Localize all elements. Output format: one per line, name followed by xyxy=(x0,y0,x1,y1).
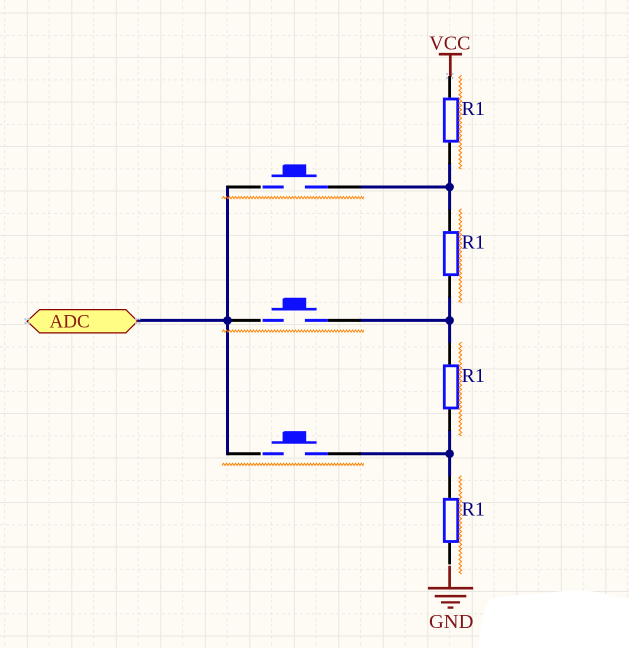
wire node A to R1(second) xyxy=(448,297,451,344)
junction node A (right, row1) xyxy=(445,183,454,192)
svg-text:VCC: VCC xyxy=(429,33,470,55)
wire switch1 to node A xyxy=(359,186,450,189)
resistor R1 (bottom) xyxy=(444,476,485,564)
wire R1(second) to node B / node B to R1(third) xyxy=(448,430,451,477)
wire R1(top) to node A xyxy=(448,163,451,210)
error marker zigzag under switch (bottom) xyxy=(222,463,364,465)
pushbutton switch S (bottom) xyxy=(227,431,361,454)
svg-text:GND: GND xyxy=(429,611,473,633)
wire left bus vertical xyxy=(226,186,229,456)
error marker zigzag at R1 (top) xyxy=(459,75,462,169)
wire switch3 to node C xyxy=(359,452,450,455)
svg-text:R1: R1 xyxy=(462,232,485,254)
pushbutton switch S (middle) xyxy=(227,298,361,321)
junction node C (right, row3) xyxy=(445,449,454,458)
svg-text:R1: R1 xyxy=(462,98,485,120)
error marker zigzag at R1 (third) xyxy=(459,342,462,436)
error marker zigzag under switch (top) xyxy=(222,197,364,199)
svg-text:R1: R1 xyxy=(462,499,485,521)
error marker zigzag at R1 (second) xyxy=(459,209,462,303)
resistor R1 (top) xyxy=(444,76,485,164)
snap marker at VCC pin connection xyxy=(446,73,453,79)
junction node B (right, row2) xyxy=(445,316,454,325)
ground GND xyxy=(428,566,474,633)
pushbutton switch S (top) xyxy=(227,164,361,187)
power port VCC xyxy=(429,33,470,77)
junction left bus / ADC wire xyxy=(223,316,232,325)
wire ADC net: switch2 to node B xyxy=(359,319,450,322)
error marker zigzag at R1 (bottom) xyxy=(459,476,462,574)
resistor R1 (third) xyxy=(444,343,485,431)
error marker zigzag under switch (middle) xyxy=(222,330,364,332)
port ADC xyxy=(25,310,141,333)
resistor R1 (second) xyxy=(444,210,485,298)
wire ADC port to left bus xyxy=(138,319,228,322)
svg-text:ADC: ADC xyxy=(50,311,90,332)
svg-text:R1: R1 xyxy=(462,365,485,387)
